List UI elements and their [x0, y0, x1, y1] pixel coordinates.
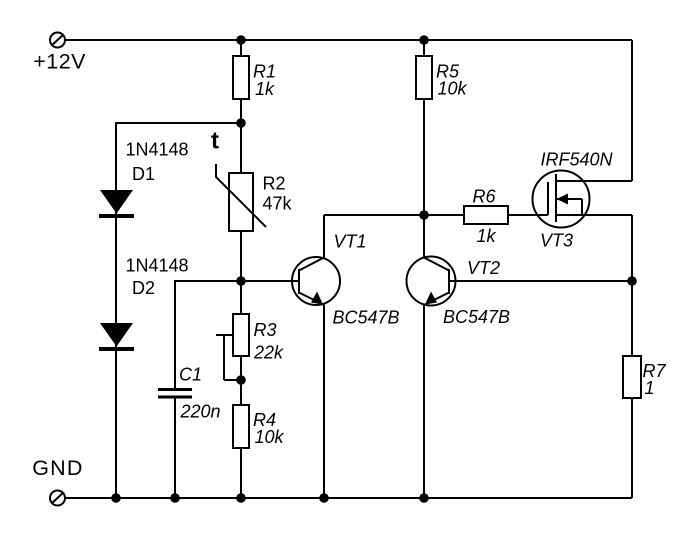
svg-text:1: 1 — [645, 378, 655, 398]
svg-text:10k: 10k — [438, 79, 468, 99]
svg-text:1N4148: 1N4148 — [126, 256, 189, 276]
svg-text:GND: GND — [32, 456, 83, 480]
svg-text:1N4148: 1N4148 — [126, 140, 189, 160]
svg-text:R2: R2 — [263, 174, 286, 194]
svg-text:D1: D1 — [132, 164, 155, 184]
svg-text:1k: 1k — [477, 226, 497, 246]
svg-text:BC547B: BC547B — [443, 307, 510, 327]
svg-text:R3: R3 — [254, 320, 277, 340]
svg-text:VT3: VT3 — [540, 231, 573, 251]
svg-text:R6: R6 — [473, 187, 497, 207]
svg-text:220n: 220n — [180, 402, 221, 422]
svg-text:10k: 10k — [255, 427, 285, 447]
svg-text:D2: D2 — [132, 278, 155, 298]
svg-text:+12V: +12V — [33, 50, 86, 74]
svg-text:22k: 22k — [253, 343, 284, 363]
svg-text:IRF540N: IRF540N — [541, 150, 614, 170]
svg-text:BC547B: BC547B — [333, 308, 400, 328]
svg-text:t: t — [211, 128, 219, 155]
svg-text:1k: 1k — [255, 79, 275, 99]
svg-text:VT2: VT2 — [467, 258, 500, 278]
svg-text:C1: C1 — [179, 365, 202, 385]
svg-text:VT1: VT1 — [334, 232, 367, 252]
svg-text:47k: 47k — [263, 194, 293, 214]
